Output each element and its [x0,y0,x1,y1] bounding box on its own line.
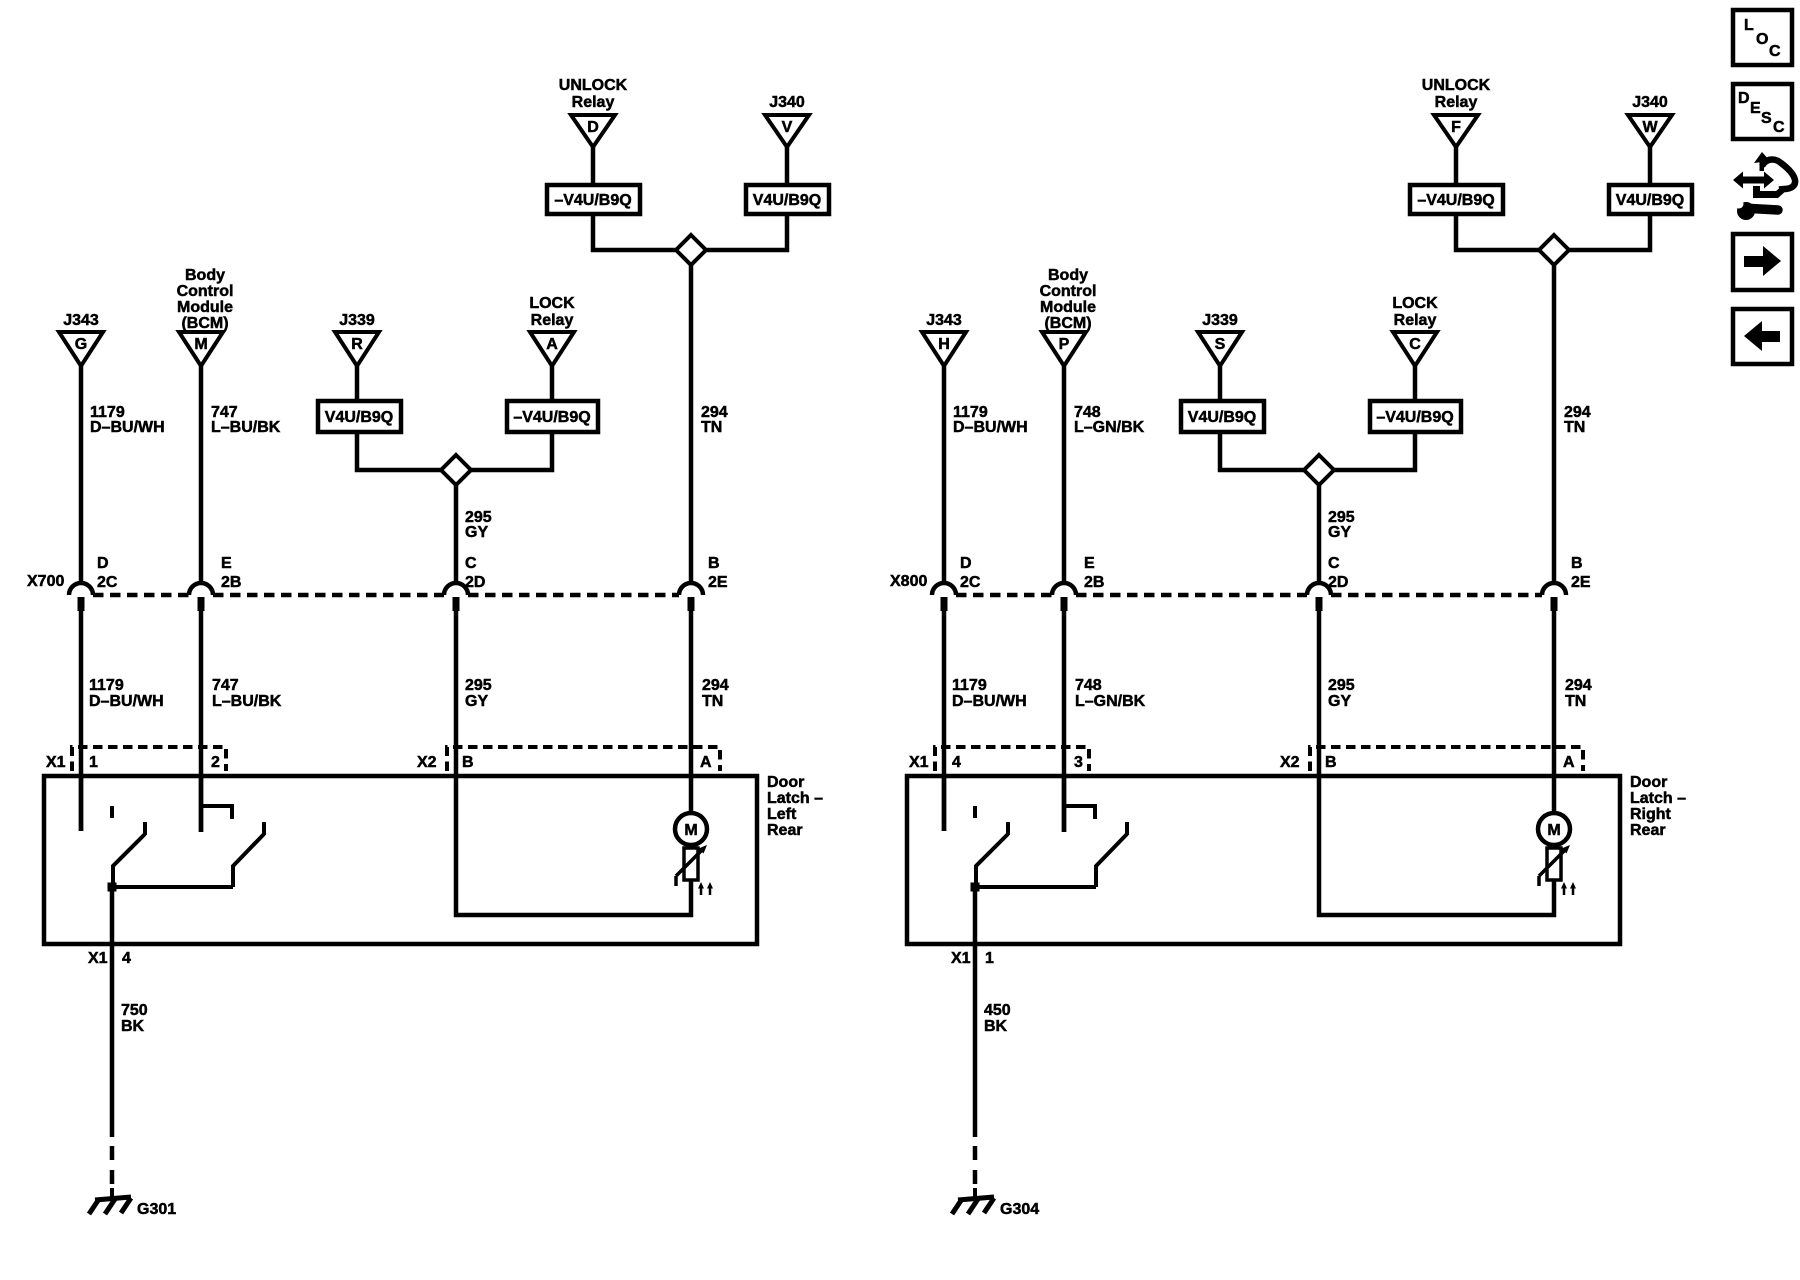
svg-text:V: V [782,119,793,136]
svg-text:L–GN/BK: L–GN/BK [1075,693,1146,710]
svg-text:GY: GY [465,524,488,541]
lock switch fixed contact hook (right) [1064,806,1095,819]
wire label 295 GY upper (right) [1328,509,1355,541]
svg-text:Module: Module [1040,299,1096,316]
X700 pin D cavity 2C label [97,555,118,591]
component name Door Latch - Left Rear [767,774,823,839]
svg-text:2: 2 [211,754,220,771]
connector symbol J343 pin H (right) [922,312,966,366]
svg-text:Relay: Relay [572,94,615,111]
door latch motor M (left) [675,813,707,845]
motor double up arrows (left) [698,882,713,895]
wire from J340 W to harness code box [1648,147,1653,185]
svg-text:X800: X800 [890,573,927,590]
wire label 1179 D-BU/WH lower (left) [89,677,164,710]
wire label 1179 D-BU/WH upper (right) [953,404,1028,436]
svg-text:E: E [1750,100,1761,117]
svg-text:TN: TN [1565,693,1586,710]
wire from UNLOCK relay D to harness code box [591,147,596,185]
legend icon LOC box [1733,10,1792,65]
svg-text:3: 3 [1074,754,1083,771]
svg-text:D–BU/WH: D–BU/WH [953,419,1028,436]
svg-text:TN: TN [701,419,722,436]
svg-text:Control: Control [1040,283,1097,300]
X800 socket arc and pin at cavity D [932,583,956,611]
svg-text:X1: X1 [88,950,108,967]
wire label 294 TN upper (left) [701,404,728,436]
svg-text:F: F [1451,119,1461,136]
door latch Left rear component box [44,776,757,944]
splice diamond lower (right) [1304,455,1334,485]
svg-text:J340: J340 [1632,94,1668,111]
svg-text:747: 747 [212,677,239,694]
svg-text:P: P [1059,336,1070,353]
ground wire dashed continuation (right) [973,1146,978,1184]
lock switch wire stub from pin 2 (left) [199,776,204,832]
svg-text:4: 4 [952,754,961,771]
svg-text:748: 748 [1075,677,1102,694]
door latch Right rear component box [907,776,1620,944]
svg-text:M: M [194,336,207,353]
wire from LOCK relay A to harness code box (left) [550,366,555,401]
svg-text:J343: J343 [926,312,962,329]
svg-text:D–BU/WH: D–BU/WH [90,419,165,436]
svg-text:2E: 2E [708,574,728,591]
motor thermal protector (PTC) with variable arrow (right) [1539,845,1570,886]
svg-text:S: S [1761,110,1772,127]
svg-text:X1: X1 [909,754,929,771]
connector symbol J340 pin W (right) [1628,94,1672,147]
svg-text:Door: Door [1630,774,1667,791]
svg-text:V4U/B9Q: V4U/B9Q [1188,409,1256,426]
svg-text:750: 750 [121,1002,148,1019]
wire lock branch to splice (left) [471,432,552,470]
wire label 295 GY upper (left) [465,509,492,541]
X700 pin C cavity 2D label [465,555,485,591]
wire label 295 GY lower (left) [465,677,492,710]
X800 pin E cavity 2B label [1084,555,1104,591]
ground wire dashed continuation (left) [110,1146,115,1184]
svg-text:S: S [1215,336,1226,353]
X700 pin B cavity 2E label [708,555,728,591]
svg-text:X2: X2 [417,754,437,771]
svg-text:1179: 1179 [89,677,124,694]
motor double up arrows (right) [1561,882,1576,895]
svg-text:Right: Right [1630,806,1672,823]
svg-text:BK: BK [121,1018,145,1035]
svg-text:4: 4 [122,950,131,967]
harness option label -V4U/B9Q (lock, right) [1370,401,1461,432]
ajar switch blade contact tick (right) [1006,822,1010,835]
svg-text:V4U/B9Q: V4U/B9Q [1616,192,1684,209]
lock switch blade (left) [233,834,264,887]
svg-text:Rear: Rear [1630,822,1666,839]
door latch connector X1 dashed bracket (left) [72,747,226,771]
svg-text:1: 1 [985,950,994,967]
door latch connector X2 dashed bracket (right) [1310,747,1583,771]
wire 1179 D-BU/WH lower segment (left) [79,603,84,831]
connector symbol UNLOCK Relay pin F (right) [1422,77,1491,147]
svg-text:R: R [351,336,363,353]
wire 295 GY lower segment into latch (left) [456,603,691,915]
svg-text:2E: 2E [1571,574,1591,591]
svg-text:E: E [1084,555,1095,572]
svg-text:GY: GY [1328,693,1351,710]
svg-text:J339: J339 [339,312,375,329]
X700 socket arc and pin at cavity B [679,583,703,611]
svg-text:D: D [960,555,972,572]
svg-text:C: C [1409,336,1421,353]
svg-text:E: E [221,555,232,572]
svg-text:–V4U/B9Q: –V4U/B9Q [554,192,631,209]
ajar switch blade contact tick (left) [143,822,147,835]
inline connector X700 dashed body line [93,593,679,598]
svg-text:UNLOCK: UNLOCK [559,77,628,94]
svg-text:B: B [1571,555,1583,572]
wire J340 branch to splice (right) [1569,214,1650,250]
wire J340 branch to splice (left) [706,214,787,250]
svg-text:294: 294 [702,677,729,694]
lock switch blade (right) [1096,834,1127,887]
svg-text:W: W [1642,119,1658,136]
lock switch wire stub from pin 3 (right) [1062,776,1067,832]
wire label 747 L–BU/BK upper (left) [211,404,281,436]
svg-text:H: H [938,336,950,353]
svg-text:J340: J340 [769,94,805,111]
ground wire 450 BK segment (right) [973,887,978,1137]
wire label 1179 D-BU/WH lower (right) [952,677,1027,710]
svg-text:D: D [587,119,599,136]
wire from J339 R to harness code box (left) [355,366,360,401]
ajar switch blade (right) [976,834,1008,887]
ground wire 750 BK segment (left) [110,887,115,1137]
splice diamond upper (right) [1539,235,1569,265]
connector symbol J340 pin V (left) [765,94,809,147]
svg-text:GY: GY [1328,524,1351,541]
svg-text:A: A [546,336,558,353]
svg-text:D–BU/WH: D–BU/WH [89,693,164,710]
switch common link wire (right) [975,885,1096,889]
X800 socket arc and pin at cavity C [1307,583,1331,611]
wire from LOCK relay C to harness code box (right) [1413,366,1418,401]
svg-text:GY: GY [465,693,488,710]
inline connector X800 dashed body line [956,593,1542,598]
splice diamond upper (left) [676,235,706,265]
svg-text:V4U/B9Q: V4U/B9Q [325,409,393,426]
wire 747 L–BU/BK upper segment (left) [199,366,204,584]
svg-text:Body: Body [185,267,225,284]
door latch motor M (right) [1538,813,1570,845]
wire 294 TN lower segment (left) [689,603,694,813]
wire 295 GY vertical segment to connector (right) [1317,485,1322,584]
svg-text:O: O [1756,31,1768,48]
svg-text:G304: G304 [1000,1201,1039,1218]
wire label 750 BK (left) [121,1002,148,1035]
ground symbol G304 [952,1188,994,1214]
ajar switch fixed contact stub (right) [973,806,977,818]
X700 socket arc and pin at cavity C [444,583,468,611]
connector symbol J339 pin R (left) [335,312,379,366]
wire label 450 BK (right) [984,1002,1011,1035]
svg-text:BK: BK [984,1018,1008,1035]
X700 pin E cavity 2B label [221,555,241,591]
svg-text:D: D [1738,90,1750,107]
harness option label V4U/B9Q (J339, right) [1181,401,1264,432]
wire unlock branch to splice (right) [1456,214,1539,250]
door latch X1 pin 1 label below box (right) [951,950,994,967]
svg-text:Relay: Relay [531,312,574,329]
wire label 294 TN lower (right) [1565,677,1592,710]
harness option label V4U/B9Q (J340, right) [1609,185,1692,214]
svg-text:X700: X700 [27,573,64,590]
X800 pin C cavity 2D label [1328,555,1348,591]
switch common link wire (left) [112,885,233,889]
svg-text:X2: X2 [1280,754,1300,771]
svg-text:Latch –: Latch – [767,790,823,807]
svg-text:–V4U/B9Q: –V4U/B9Q [1417,192,1494,209]
svg-text:Latch –: Latch – [1630,790,1686,807]
wire label 294 TN lower (left) [702,677,729,710]
wire from J340 V to harness code box [785,147,790,185]
ajar switch fixed contact stub (left) [110,806,114,818]
wire label 748 L–GN/BK upper (right) [1074,404,1145,436]
harness option label -V4U/B9Q (lock, left) [507,401,598,432]
ajar switch wire stub from pin 1 (left) [79,776,84,831]
wire unlock branch to splice (left) [593,214,676,250]
svg-text:V4U/B9Q: V4U/B9Q [753,192,821,209]
wire label 747 L–BU/BK lower (left) [212,677,282,710]
wire label 748 L–GN/BK lower (right) [1075,677,1146,710]
X800 pin B cavity 2E label [1571,555,1591,591]
svg-text:L: L [1744,17,1754,34]
harness option label V4U/B9Q (J340, left) [746,185,829,214]
svg-text:Left: Left [767,806,797,823]
svg-text:D–BU/WH: D–BU/WH [952,693,1027,710]
wire 294 TN vertical segment to connector (left) [689,265,694,584]
svg-text:L–GN/BK: L–GN/BK [1074,419,1145,436]
wire 295 GY lower segment into latch (right) [1319,603,1554,915]
connector symbol J343 pin G (left) [59,312,103,366]
motor thermal protector (PTC) with variable arrow (left) [676,845,707,886]
component name Door Latch - Right Rear [1630,774,1686,839]
wire label 294 TN upper (right) [1564,404,1591,436]
X800 socket arc and pin at cavity E [1052,583,1076,611]
svg-text:J339: J339 [1202,312,1238,329]
svg-text:2B: 2B [1084,574,1104,591]
svg-text:G301: G301 [137,1201,176,1218]
X700 socket arc and pin at cavity E [189,583,213,611]
svg-text:Relay: Relay [1435,94,1478,111]
harness option label -V4U/B9Q (unlock, right) [1410,185,1503,214]
legend icon tools: double arrow [1733,172,1774,189]
svg-text:C: C [1769,43,1781,60]
lock switch blade contact tick (left) [262,822,266,835]
svg-text:Body: Body [1048,267,1088,284]
svg-text:2C: 2C [97,574,118,591]
wire 748 L–GN/BK lower segment (right) [1062,603,1067,832]
svg-text:2C: 2C [960,574,981,591]
legend icon DESC box [1733,84,1792,139]
svg-text:(BCM): (BCM) [181,315,228,332]
ground symbol G301 [89,1188,131,1214]
svg-text:B: B [1325,754,1337,771]
svg-text:LOCK: LOCK [1392,295,1438,312]
svg-text:B: B [462,754,474,771]
wire lock branch to splice (right) [1334,432,1415,470]
wire 1179 D-BU/WH upper segment (right) [942,366,947,584]
wire 1179 D-BU/WH lower segment (right) [942,603,947,831]
svg-text:TN: TN [702,693,723,710]
wire 295 GY vertical segment to connector (left) [454,485,459,584]
svg-text:X1: X1 [46,754,66,771]
svg-text:M: M [684,822,697,839]
wire 747 L–BU/BK lower segment (left) [199,603,204,832]
connector symbol LOCK Relay pin A (left) [529,295,575,366]
legend icon forward arrow box [1733,234,1792,290]
svg-text:C: C [465,555,477,572]
svg-text:C: C [1328,555,1340,572]
legend icon back arrow box [1733,309,1792,364]
svg-text:A: A [1563,754,1575,771]
svg-text:B: B [708,555,720,572]
connector symbol Body Control Module (BCM) pin P (right) [1040,267,1097,366]
connector symbol Body Control Module (BCM) pin M (left) [177,267,234,366]
svg-text:M: M [1547,822,1560,839]
wire J339 branch to splice (left) [357,432,441,470]
wire from J339 S to harness code box (right) [1218,366,1223,401]
ajar switch blade (left) [113,834,145,887]
svg-text:Module: Module [177,299,233,316]
svg-text:294: 294 [1565,677,1592,694]
svg-text:Relay: Relay [1394,312,1437,329]
door latch connector X2 dashed bracket (left) [447,747,720,771]
connector symbol UNLOCK Relay pin D (left) [559,77,628,147]
junction dot switch common (right) [971,883,980,892]
wire 1179 D-BU/WH upper segment (left) [79,366,84,584]
wire label 1179 D-BU/WH upper (left) [90,404,165,436]
svg-text:LOCK: LOCK [529,295,575,312]
svg-text:G: G [75,336,87,353]
svg-text:J343: J343 [63,312,99,329]
X800 pin D cavity 2C label [960,555,981,591]
door latch connector X1 dashed bracket (right) [935,747,1089,771]
svg-text:A: A [700,754,712,771]
legend icon tools: rotate arrow outline [1753,152,1795,198]
connector symbol LOCK Relay pin C (right) [1392,295,1438,366]
svg-text:–V4U/B9Q: –V4U/B9Q [513,409,590,426]
wire 748 L–GN/BK upper segment (right) [1062,366,1067,584]
wire label 295 GY lower (right) [1328,677,1355,710]
junction dot switch common (left) [108,883,117,892]
harness option label V4U/B9Q (J339, left) [318,401,401,432]
X700 socket arc and pin at cavity D [69,583,93,611]
svg-text:C: C [1773,119,1785,136]
connector symbol J339 pin S (right) [1198,312,1242,366]
wire J339 branch to splice (right) [1220,432,1304,470]
lock switch fixed contact hook (left) [201,806,232,819]
X800 socket arc and pin at cavity B [1542,583,1566,611]
svg-text:2B: 2B [221,574,241,591]
svg-text:295: 295 [1328,677,1355,694]
wire 294 TN vertical segment to connector (right) [1552,265,1557,584]
svg-text:UNLOCK: UNLOCK [1422,77,1491,94]
lock switch blade contact tick (right) [1125,822,1129,835]
svg-text:L–BU/BK: L–BU/BK [212,693,282,710]
svg-text:–V4U/B9Q: –V4U/B9Q [1376,409,1453,426]
svg-text:X1: X1 [951,950,971,967]
wire from UNLOCK relay F to harness code box [1454,147,1459,185]
legend icon tools: wrench [1735,200,1779,221]
svg-text:1: 1 [89,754,98,771]
harness option label -V4U/B9Q (unlock, left) [547,185,640,214]
door latch X1 pin 4 label below box (left) [88,950,131,967]
svg-text:295: 295 [465,677,492,694]
svg-text:D: D [97,555,109,572]
svg-text:Rear: Rear [767,822,803,839]
ajar switch wire stub from pin 4 (right) [942,776,947,831]
wire 294 TN lower segment (right) [1552,603,1557,813]
svg-text:1179: 1179 [952,677,987,694]
svg-text:(BCM): (BCM) [1044,315,1091,332]
svg-text:Control: Control [177,283,234,300]
svg-text:Door: Door [767,774,804,791]
svg-text:TN: TN [1564,419,1585,436]
splice diamond lower (left) [441,455,471,485]
svg-text:450: 450 [984,1002,1011,1019]
svg-text:L–BU/BK: L–BU/BK [211,419,281,436]
